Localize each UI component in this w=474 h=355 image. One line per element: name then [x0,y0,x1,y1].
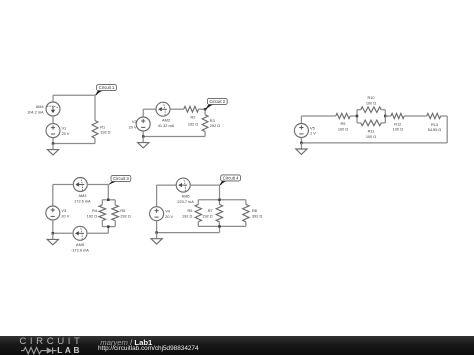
wire [404,115,427,117]
wire [198,225,246,227]
resistor R8 [243,204,249,221]
CircuitLab logo symbol (resistor zigzag + diode) [21,346,61,355]
svg-text:-172.6 mA: -172.6 mA [71,248,89,252]
wire [219,226,221,232]
svg-text:Circuit 1: Circuit 1 [99,85,115,90]
svg-text:R2: R2 [191,115,196,119]
label AM6 [177,195,194,204]
wire [197,200,199,205]
wire [94,138,96,143]
wire [357,109,361,111]
flag Circuit 2 [205,98,227,109]
svg-text:V5: V5 [310,126,315,130]
resistor R5 [112,205,119,221]
flag Circuit 3 [108,175,131,184]
resistor R4 [99,205,106,221]
wire [52,116,54,124]
wire [142,131,144,137]
svg-text:100 Ω: 100 Ω [366,102,376,106]
wire [157,184,177,186]
svg-text:54.55 Ω: 54.55 Ω [428,128,442,132]
svg-text:41.32 mA: 41.32 mA [158,124,175,128]
svg-text:R7: R7 [208,209,213,213]
svg-text:392 Ω: 392 Ω [252,214,262,218]
svg-text:R3: R3 [210,119,215,123]
ammeter AM2 [156,102,170,116]
ammeter AM4 [46,102,60,116]
label R4 192 Ohm [87,209,98,218]
label R1 192 Ohm [100,125,110,134]
ground [296,143,307,155]
ground [151,233,162,245]
svg-text:R13: R13 [431,123,438,127]
wire [301,115,335,117]
svg-text:292 Ω: 292 Ω [210,124,220,128]
wire [52,95,54,102]
label R10 100 Ohm [366,96,376,105]
label R3 292 Ohm [210,119,220,128]
resistor R7 [216,204,222,221]
svg-text:20 V: 20 V [165,215,173,219]
resistor R10 [361,107,381,113]
wire [143,108,156,110]
svg-text:R12: R12 [394,122,401,126]
svg-text:R11: R11 [368,130,375,134]
wire [87,184,108,186]
wire [157,232,220,234]
svg-text:R8: R8 [252,209,257,213]
wire [384,110,386,123]
svg-text:R10: R10 [367,96,374,100]
resistor R2 [184,106,199,112]
wire [143,136,205,138]
wire [102,199,115,201]
svg-text:20 V: 20 V [129,125,137,129]
label R5 292 Ohm [120,209,130,218]
label V4 20 V [165,210,173,219]
svg-text:100 Ω: 100 Ω [338,127,348,131]
wire [53,94,95,96]
wire [356,110,358,123]
wire [101,200,103,205]
svg-text:AM5: AM5 [76,243,84,247]
CircuitLab logo wordmark LAB [57,346,82,354]
label AM3 [74,194,91,203]
voltage source V4 [150,207,164,221]
wire [114,221,116,227]
svg-text:AM6: AM6 [182,195,190,199]
node junction [218,225,221,228]
resistor R6 [195,204,201,221]
wire [94,95,96,120]
wire [204,109,206,115]
node junction [384,115,387,118]
voltage source V1 [46,124,60,138]
wire [446,116,448,143]
wire [300,116,302,124]
svg-text:V2: V2 [132,120,137,124]
flag Circuit 4 [220,175,241,185]
svg-text:V4: V4 [165,210,171,214]
wire [142,109,144,117]
svg-text:100 Ω: 100 Ω [393,128,403,132]
wire [170,108,184,110]
resistor R9 [336,113,350,118]
svg-text:AM2: AM2 [162,119,170,123]
node junction [204,108,207,111]
wire [52,138,54,144]
svg-text:192 Ω: 192 Ω [182,214,192,218]
svg-text:104.2 mA: 104.2 mA [27,110,44,114]
ammeter AM3 [73,178,87,192]
node junction [52,142,55,145]
voltage source V3 [46,206,60,220]
wire [107,185,109,200]
label R7 292 Ohm [202,209,212,218]
footer url [98,346,199,352]
wire [381,109,385,111]
wire [107,227,109,234]
wire [357,122,361,124]
wire [245,200,247,205]
svg-text:Circuit 3: Circuit 3 [113,176,129,181]
svg-text:Circuit 4: Circuit 4 [223,175,239,180]
wire [52,185,54,207]
wire [101,221,103,227]
resistor R3 [202,115,208,132]
wire [53,184,74,186]
label R6 192 Ohm [182,209,192,218]
node junction [142,135,145,138]
resistor R1 [92,121,98,139]
svg-text:20 V: 20 V [61,214,69,218]
label R12 100 Ohm [393,122,403,131]
label AM4 [27,105,44,114]
label R11 100 Ohm [366,130,376,139]
resistor R11 [361,120,381,126]
wire [102,226,115,228]
svg-text:292 Ω: 292 Ω [120,214,130,218]
node junction [300,142,303,145]
svg-text:AM3: AM3 [78,194,86,198]
wire [156,185,158,207]
svg-text:172.6 mA: 172.6 mA [74,199,91,203]
wire [87,232,108,234]
label V3 20 V [61,209,69,218]
svg-text:R1: R1 [100,125,105,129]
resistor R12 [391,113,404,118]
label R13 54.55 Ohm [428,123,442,132]
wire [199,108,206,110]
ammeter AM5 [73,226,87,240]
wire [350,115,357,117]
svg-text:292 Ω: 292 Ω [202,214,212,218]
wire [441,115,448,117]
label V5 1 V [310,126,316,135]
wire [52,220,54,233]
svg-text:192 Ω: 192 Ω [100,131,110,135]
wire [190,184,219,186]
svg-text:20 V: 20 V [62,132,70,136]
wire [218,222,220,227]
svg-text:V1: V1 [62,127,67,131]
node junction [356,115,359,118]
svg-text:R4: R4 [92,209,98,213]
wire [114,200,116,205]
ground [138,137,149,149]
svg-text:V3: V3 [61,209,66,213]
svg-text:R5: R5 [120,209,125,213]
CircuitLab logo wordmark CIRCUIT [19,337,83,347]
svg-text:Circuit 2: Circuit 2 [209,99,225,104]
svg-text:192 Ω: 192 Ω [87,214,97,218]
svg-text:AM4: AM4 [36,105,45,109]
voltage source V5 [294,124,308,138]
label AM2 [158,119,175,128]
wire [219,185,221,200]
svg-text:1 V: 1 V [310,132,316,136]
node junction [218,199,221,202]
label R9 100 Ohm [338,122,348,131]
footer user / project name [100,339,152,347]
wire [301,142,447,144]
wire [156,221,158,233]
wire [198,199,246,201]
ground [47,233,58,245]
ammeter AM6 [176,178,190,192]
node junction [52,232,55,235]
node junction [107,225,110,228]
node junction [107,199,110,202]
wire [218,200,220,205]
svg-text:R9: R9 [341,122,346,126]
node junction [155,231,158,234]
voltage source V2 [136,117,150,131]
svg-text:223.7 mA: 223.7 mA [177,200,194,204]
flag Circuit 1 [95,85,116,96]
wire [53,232,73,234]
label AM5 [71,243,89,252]
svg-text:192 Ω: 192 Ω [188,123,198,127]
label V2 20 V [129,120,137,129]
wire [381,122,385,124]
svg-text:100 Ω: 100 Ω [366,135,376,139]
label R8 392 Ohm [252,209,262,218]
wire [53,143,95,145]
wire [385,115,391,117]
svg-text:R6: R6 [187,209,192,213]
wire [245,222,247,227]
label V1 20 V [62,127,70,136]
label R2 192 Ohm [188,115,198,126]
ground [47,144,58,156]
resistor R13 [427,113,441,118]
wire [300,138,302,143]
wire [204,132,206,137]
wire [197,222,199,227]
